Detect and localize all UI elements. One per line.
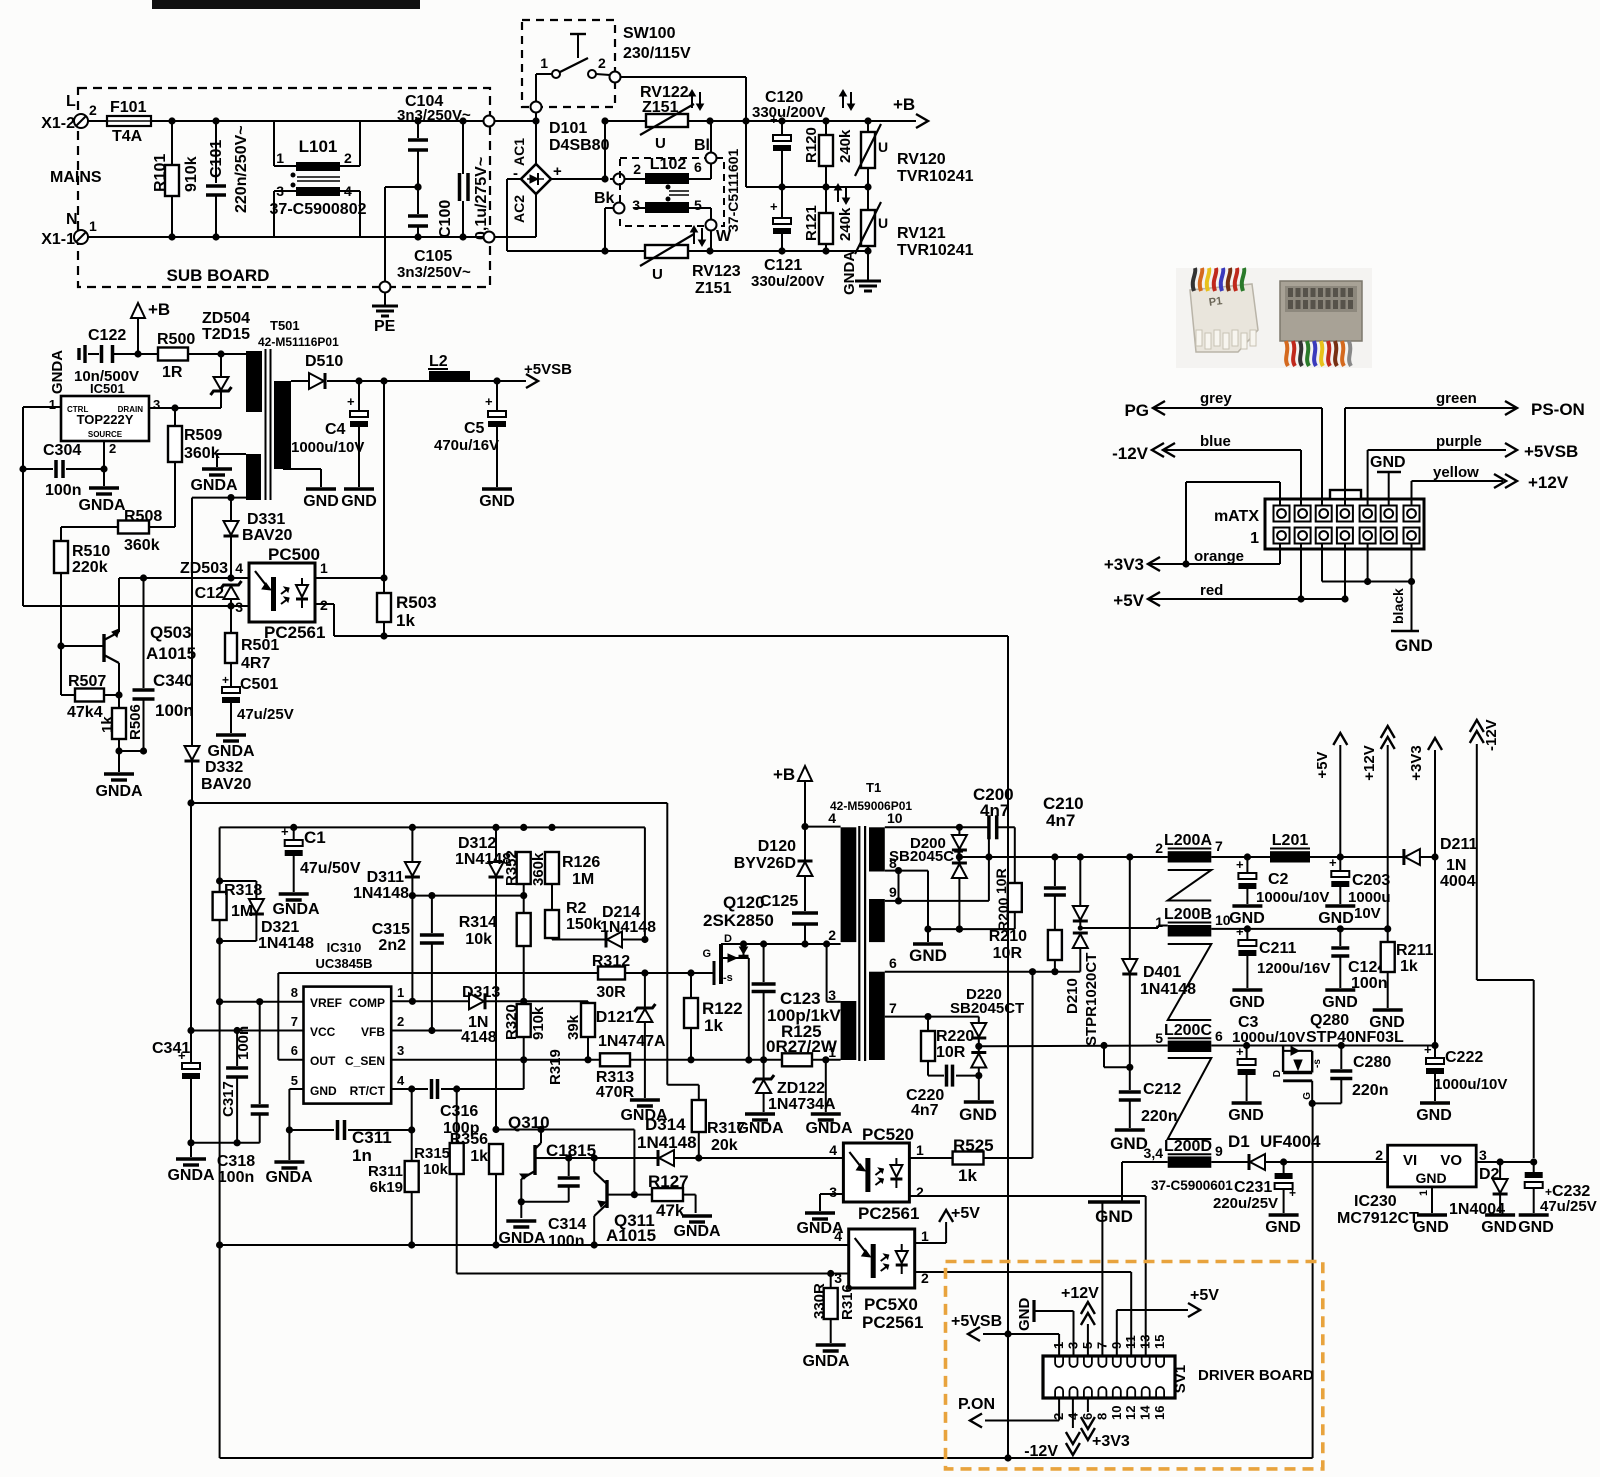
svg-text:10V: 10V (1354, 905, 1381, 922)
svg-text:C304: C304 (43, 442, 81, 459)
zener ZD121 (586, 973, 666, 1098)
svg-text:100n: 100n (548, 1233, 584, 1250)
svg-text:+: + (1236, 1044, 1244, 1059)
svg-text:+5V: +5V (1314, 751, 1331, 778)
wire SV1 pin7 gnd (1101, 1202, 1103, 1356)
svg-text:6: 6 (1215, 1028, 1223, 1044)
svg-text:C318: C318 (217, 1153, 255, 1170)
svg-text:R320: R320 (503, 1004, 520, 1040)
capacitor C304 (19, 442, 107, 499)
svg-text:-s: -s (723, 972, 733, 984)
svg-text:3: 3 (153, 397, 160, 412)
resistor R314 (459, 884, 531, 948)
ground GND C211 (1229, 990, 1265, 1011)
wire L200A pin2 rail (1130, 856, 1168, 858)
arrow +3V3 top (1408, 738, 1442, 1049)
svg-text:R507: R507 (68, 673, 106, 690)
svg-text:ZD122: ZD122 (777, 1080, 825, 1097)
svg-text:5: 5 (291, 1073, 298, 1088)
zener ZD122 (753, 1060, 836, 1113)
resistor R508 (61, 508, 175, 554)
wire pin9 tap (885, 857, 989, 901)
wire L top rail (88, 117, 536, 124)
svg-text:10: 10 (887, 810, 903, 826)
wire ZD503 rail (119, 574, 249, 581)
svg-text:4004: 4004 (1440, 873, 1476, 890)
svg-text:C316: C316 (440, 1103, 478, 1120)
svg-text:VCC: VCC (310, 1025, 336, 1039)
resistor R312 (592, 953, 714, 1001)
svg-text:GNDA: GNDA (805, 1120, 853, 1137)
svg-text:2: 2 (916, 1184, 924, 1200)
svg-text:14: 14 (1138, 1405, 1153, 1420)
resistor R120 (803, 121, 854, 187)
svg-text:D314: D314 (645, 1115, 686, 1134)
svg-text:+: + (553, 163, 562, 180)
svg-text:R211: R211 (1396, 942, 1433, 959)
svg-text:grey: grey (1200, 390, 1232, 407)
svg-text:2n2: 2n2 (378, 937, 406, 954)
svg-text:Q280: Q280 (1310, 1012, 1349, 1029)
svg-text:SUB BOARD: SUB BOARD (167, 266, 270, 285)
diode D214 (552, 904, 656, 948)
svg-text:F101: F101 (110, 99, 147, 116)
wire secondary top rail (355, 377, 429, 384)
svg-text:T2D15: T2D15 (202, 326, 250, 343)
mosfet Q120 (702, 893, 773, 1064)
svg-text:MAINS: MAINS (50, 169, 102, 186)
resistor R318 (213, 882, 263, 920)
inductor L200D (1144, 1138, 1234, 1193)
resistor R126 (545, 852, 600, 888)
mosfet Q280 (1272, 1012, 1404, 1107)
wire +12V yellow (1412, 464, 1569, 505)
svg-text:SW100: SW100 (623, 25, 676, 42)
varistor RV121 (855, 187, 974, 259)
arrow P.ON (958, 1396, 995, 1428)
svg-text:GND: GND (303, 493, 339, 510)
ground GND C231 (1265, 1215, 1301, 1236)
wire source pin2 (103, 441, 105, 486)
ground GND sec1 (909, 944, 947, 965)
ground GND D2 (1481, 1215, 1517, 1236)
svg-text:Z151: Z151 (695, 280, 732, 297)
capacitor C4 (291, 381, 368, 487)
choke L102 dashed box (620, 158, 724, 226)
transistor Q503 (57, 578, 196, 694)
arrow +5VSB driver (951, 1313, 1002, 1341)
varistor RV123 (640, 234, 741, 297)
svg-text:9: 9 (1215, 1143, 1223, 1159)
optocoupler PC520 (829, 1125, 924, 1223)
svg-text:+5VSB: +5VSB (524, 361, 572, 378)
svg-text:4n7: 4n7 (911, 1102, 939, 1119)
ground GNDA under Q503 (95, 774, 143, 800)
resistor R503 (377, 578, 437, 640)
wire rail D332 gnda (187, 799, 698, 1100)
wire +3V3 orange (1104, 482, 1280, 574)
svg-text:+: + (347, 394, 355, 409)
svg-text:R120: R120 (803, 127, 820, 163)
capacitor C232 (1525, 1162, 1597, 1215)
zigzag L200B L200C (1168, 944, 1212, 1020)
svg-text:TVR10241: TVR10241 (897, 242, 974, 259)
svg-text:C314: C314 (548, 1216, 586, 1233)
svg-text:1N4148: 1N4148 (353, 885, 409, 902)
svg-text:240k: 240k (837, 129, 854, 163)
svg-text:10k: 10k (465, 931, 492, 948)
resistor R210 (989, 928, 1062, 975)
svg-text:D331: D331 (247, 511, 285, 528)
svg-text:1: 1 (89, 218, 97, 234)
resistor R315 (414, 1089, 464, 1274)
svg-text:C203: C203 (1352, 872, 1390, 889)
svg-text:4: 4 (834, 1228, 842, 1244)
svg-text:47k: 47k (656, 1201, 685, 1220)
svg-text:220u/25V: 220u/25V (1213, 1195, 1278, 1212)
ground GND C2 (1229, 906, 1265, 927)
svg-text:100n: 100n (1351, 975, 1387, 992)
svg-text:12: 12 (1123, 1406, 1138, 1420)
inductor L200C (1155, 1022, 1223, 1052)
svg-text:R319: R319 (547, 1049, 564, 1085)
wire bridge minus to bottom rail (507, 179, 521, 251)
svg-text:green: green (1436, 390, 1477, 407)
open terminal N out (484, 232, 495, 243)
svg-text:3: 3 (632, 197, 640, 213)
svg-text:150k: 150k (566, 916, 602, 933)
svg-text:GND: GND (959, 1105, 997, 1124)
wire SV1 pin9 +5V (1117, 1287, 1219, 1356)
ground GND R211 (1369, 1010, 1405, 1031)
wire Q280 gate down (1312, 1103, 1314, 1458)
resistor R313 (596, 1053, 691, 1101)
svg-text:6: 6 (694, 159, 702, 175)
svg-text:+12V: +12V (1361, 745, 1378, 780)
ground GND D220 (959, 1102, 997, 1124)
wire VCC rail (220, 824, 645, 940)
svg-text:13: 13 (1138, 1335, 1153, 1349)
svg-text:C_SEN: C_SEN (345, 1054, 385, 1068)
svg-text:2: 2 (598, 55, 606, 71)
wire black ground bus (1322, 544, 1415, 632)
svg-text:VO: VO (1440, 1152, 1462, 1169)
capacitor C104 (397, 93, 471, 187)
svg-text:+3V3: +3V3 (1104, 555, 1144, 574)
arrow -12V top (1470, 719, 1534, 1158)
svg-text:GNDA: GNDA (272, 901, 320, 918)
resistor R500 (134, 331, 221, 381)
wire +12V rail (1211, 925, 1391, 932)
svg-text:1N: 1N (1446, 857, 1466, 874)
svg-text:+5V: +5V (951, 1205, 980, 1222)
capacitor C105 (397, 183, 471, 281)
svg-text:3: 3 (276, 183, 284, 199)
svg-text:1M: 1M (231, 903, 253, 920)
ground GND SV1 pin7 (1101, 1201, 1103, 1203)
ground GNDA at C122 (49, 345, 85, 394)
capacitor C231 (1213, 1162, 1296, 1213)
svg-text:VFB: VFB (361, 1025, 385, 1039)
zener ZD503 (180, 560, 242, 610)
svg-text:L2: L2 (429, 353, 448, 370)
svg-text:6k19: 6k19 (370, 1179, 403, 1196)
svg-text:C100: C100 (437, 200, 454, 238)
svg-text:R352: R352 (503, 850, 520, 886)
svg-text:D313: D313 (462, 984, 500, 1001)
svg-text:yellow: yellow (1433, 464, 1479, 481)
wire PS-ON green (1345, 390, 1585, 505)
svg-text:TVR10241: TVR10241 (897, 168, 974, 185)
resistor R320 (503, 946, 547, 1060)
svg-text:3,4: 3,4 (1144, 1145, 1164, 1161)
wire +5V rail (1211, 853, 1404, 860)
wire PC520 pin3 gnd (820, 1194, 843, 1211)
svg-text:+B: +B (148, 300, 170, 319)
ground GND C212 (1110, 1130, 1148, 1153)
svg-text:10R: 10R (936, 1044, 966, 1061)
capacitor C123 (752, 944, 842, 1060)
wire VCC pin7 (191, 1030, 304, 1032)
svg-text:D1: D1 (1228, 1132, 1250, 1151)
svg-text:L101: L101 (299, 137, 338, 156)
svg-text:1M: 1M (572, 871, 594, 888)
node Bk (594, 190, 625, 251)
capacitor C316 (432, 1060, 524, 1137)
optocoupler PC5X0 (834, 1228, 929, 1332)
svg-text:D510: D510 (305, 353, 343, 370)
svg-text:1000u/10V: 1000u/10V (1232, 1029, 1305, 1046)
svg-text:+12V: +12V (1061, 1285, 1099, 1302)
resistor R125 (766, 1022, 841, 1066)
svg-text:GNDA: GNDA (265, 1169, 313, 1186)
wire SV1 pin2 P.ON (985, 1398, 1059, 1421)
svg-text:+5VSB: +5VSB (1524, 442, 1578, 461)
diode D120 (734, 827, 813, 911)
svg-text:BAV20: BAV20 (242, 527, 292, 544)
capacitor C120 (752, 89, 825, 187)
svg-text:R510: R510 (72, 543, 110, 560)
wire PC520 pin2 to SV1 pin13 (909, 1196, 1145, 1356)
svg-text:R220: R220 (936, 1028, 974, 1045)
svg-text:BYV26D: BYV26D (734, 855, 796, 872)
ground GNDA under ZD122 (736, 1114, 784, 1137)
svg-text:C1: C1 (304, 828, 326, 847)
svg-text:+: + (281, 824, 289, 839)
wire PG grey (1124, 390, 1322, 505)
wire COMP pin1 (391, 998, 469, 1005)
svg-text:GNDA: GNDA (190, 477, 238, 494)
svg-text:A1015: A1015 (606, 1226, 656, 1245)
diode D211 (1404, 836, 1478, 890)
svg-text:2: 2 (109, 441, 116, 456)
svg-text:Z151: Z151 (642, 99, 679, 116)
arrow +B out (893, 95, 928, 128)
svg-text:4n7: 4n7 (980, 801, 1009, 820)
wire PC500 pin3 rail (23, 605, 249, 607)
svg-text:47u/25V: 47u/25V (1540, 1198, 1597, 1215)
inductor L200B (1155, 906, 1231, 937)
svg-text:U: U (655, 135, 666, 152)
resistor R121 (803, 187, 854, 251)
svg-text:R311: R311 (368, 1163, 403, 1180)
resistor R127 (634, 1172, 695, 1220)
svg-text:1k: 1k (396, 611, 415, 630)
wire SV1 pin4 -12V (1024, 1398, 1080, 1460)
svg-text:Bk: Bk (594, 190, 615, 207)
ground GND C232 (1518, 1215, 1554, 1236)
wire PC5X0 pin2 to SV1 pin11 (915, 1272, 1131, 1356)
resistor R211 (1381, 929, 1434, 1008)
svg-text:COMP: COMP (349, 996, 385, 1010)
wire -5V rail D220 to L200C (979, 1042, 1247, 1049)
svg-text:D321: D321 (261, 919, 299, 936)
svg-text:IC310: IC310 (327, 940, 362, 955)
svg-text:230/115V: 230/115V (623, 45, 691, 62)
svg-text:GNDA: GNDA (49, 350, 66, 394)
svg-text:GND: GND (1370, 454, 1406, 471)
capacitor C340 (133, 578, 194, 755)
svg-text:SB2045CT: SB2045CT (889, 848, 963, 865)
svg-text:R509: R509 (184, 427, 222, 444)
svg-text:A1015: A1015 (146, 644, 196, 663)
svg-text:R500: R500 (157, 331, 195, 348)
resistor R122 (684, 973, 743, 1060)
svg-text:R127: R127 (648, 1172, 689, 1191)
resistor R317 (692, 1100, 746, 1162)
switch SW100 (536, 34, 606, 101)
resistor R319 (547, 1001, 595, 1085)
svg-text:RT/CT: RT/CT (350, 1084, 386, 1098)
svg-text:GND: GND (310, 1084, 337, 1098)
svg-text:8: 8 (1094, 1413, 1109, 1420)
svg-text:TOP222Y: TOP222Y (77, 412, 134, 427)
svg-text:5: 5 (1155, 1030, 1163, 1046)
open terminal L out (484, 116, 495, 127)
svg-text:+: + (1236, 857, 1244, 872)
terminal X1-2 (41, 93, 97, 132)
arrow +B standby (131, 300, 170, 354)
svg-text:+12V: +12V (1528, 473, 1569, 492)
svg-text:GND: GND (1416, 1107, 1452, 1124)
svg-text:100n: 100n (45, 482, 81, 499)
svg-text:7: 7 (889, 1000, 897, 1016)
resistor R220 (921, 1017, 974, 1076)
capacitor C212 (1119, 1067, 1182, 1128)
wire +5V red (1113, 544, 1348, 611)
svg-text:D210: D210 (1064, 978, 1081, 1014)
svg-text:U: U (878, 215, 888, 231)
svg-text:X1-2: X1-2 (41, 115, 75, 132)
wire VREF pin8 (220, 1001, 304, 1003)
svg-text:RV123: RV123 (692, 263, 741, 280)
svg-text:C501: C501 (240, 676, 278, 693)
svg-text:P1: P1 (1208, 295, 1223, 309)
wire doubler mid rail (746, 183, 872, 190)
svg-text:GND: GND (1265, 1219, 1301, 1236)
wire T1 pin10 rail (885, 824, 989, 831)
svg-text:37-C5900802: 37-C5900802 (270, 201, 367, 218)
svg-text:R316: R316 (839, 1284, 856, 1320)
svg-text:-s: -s (1312, 1059, 1323, 1068)
wire -12V blue (1112, 433, 1301, 505)
node AC1 (532, 117, 539, 164)
wire +5VSB vertical (1004, 636, 1011, 1458)
fuse F101 (107, 99, 151, 145)
svg-text:C12: C12 (195, 585, 224, 602)
svg-text:ZD503: ZD503 (180, 560, 228, 577)
svg-text:PE: PE (374, 318, 396, 335)
svg-text:U: U (878, 139, 888, 155)
svg-text:1: 1 (320, 560, 328, 576)
svg-text:T501: T501 (270, 318, 300, 333)
wire RTCT pin4 (391, 1085, 460, 1092)
svg-text:15: 15 (1152, 1335, 1167, 1349)
wire sec aux rail pin6 (885, 968, 1081, 975)
svg-text:VI: VI (1403, 1152, 1417, 1169)
varistor RV120 (855, 121, 974, 187)
resistor R506 (99, 695, 144, 755)
svg-text:2: 2 (1155, 840, 1163, 856)
svg-text:C280: C280 (1353, 1054, 1391, 1071)
svg-text:360k: 360k (124, 537, 160, 554)
svg-text:C311: C311 (352, 1128, 392, 1147)
svg-text:T4A: T4A (112, 128, 143, 145)
svg-text:C211: C211 (1259, 940, 1296, 957)
ground GNDA under C501 (207, 735, 255, 760)
svg-text:2: 2 (397, 1014, 404, 1029)
wire bottom rail doubler (507, 247, 872, 254)
diode D401 (1122, 857, 1196, 1071)
svg-text:GNDA: GNDA (802, 1353, 850, 1370)
resistor R352 (503, 850, 547, 886)
svg-text:GND: GND (1228, 1107, 1264, 1124)
svg-text:3n3/250V~: 3n3/250V~ (397, 107, 471, 124)
svg-text:D120: D120 (758, 838, 796, 855)
svg-text:-12V: -12V (1024, 1443, 1058, 1460)
wire SV1 pin5 +12V (1061, 1285, 1099, 1356)
svg-text:2: 2 (344, 150, 352, 166)
svg-text:+: + (1289, 1186, 1296, 1200)
svg-text:C315: C315 (372, 921, 410, 938)
svg-text:R506: R506 (127, 704, 144, 740)
diode D312 (455, 827, 511, 1129)
ground GNDA R316 (802, 1345, 850, 1370)
resistor R525 (909, 972, 1032, 1185)
wire ctrl pin1 (23, 407, 61, 606)
svg-text:1N4148: 1N4148 (637, 1133, 697, 1152)
svg-text:R101: R101 (152, 154, 169, 192)
svg-text:R2: R2 (566, 900, 587, 917)
wire L200D pin9 rail (1211, 1161, 1250, 1163)
ground GNDA under C1 (272, 894, 320, 918)
svg-text:C222: C222 (1445, 1049, 1483, 1066)
ground GNDA under ZD121 (620, 1100, 668, 1124)
svg-text:D: D (1272, 1070, 1283, 1077)
svg-text:D332: D332 (205, 759, 243, 776)
svg-text:-12V: -12V (1112, 444, 1149, 463)
wire bridge plus to R node (551, 117, 609, 182)
wire output rail 5V diodes (959, 853, 1167, 860)
svg-text:C231: C231 (1234, 1179, 1272, 1196)
svg-text:R525: R525 (953, 1136, 994, 1155)
wire L200D left gnd (1122, 1162, 1168, 1201)
svg-text:1200u/16V: 1200u/16V (1257, 960, 1330, 977)
svg-text:IC230: IC230 (1354, 1193, 1397, 1210)
svg-text:L200D: L200D (1164, 1138, 1212, 1155)
svg-text:37-C5900601: 37-C5900601 (1151, 1178, 1233, 1193)
transistor Q310 (508, 1113, 596, 1218)
